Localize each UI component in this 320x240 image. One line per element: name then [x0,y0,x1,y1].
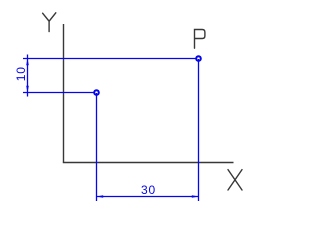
Y axis [63,24,65,163]
dimension line 10 [27,55,29,97]
arrow right [192,195,199,198]
arrow down [26,86,29,93]
label P [195,30,205,49]
label Y [43,13,56,32]
arrow left [96,195,103,198]
arrow up [26,58,29,65]
wire: extension line top (to P) [23,58,197,60]
svg-text:10: 10 [14,66,28,81]
point P marker [196,56,201,61]
point marker (30,10) [94,90,99,95]
wire: vertical extension from mid point [96,93,98,201]
X axis [63,162,234,164]
svg-text:30: 30 [141,183,156,197]
dimension line 30 [97,196,199,198]
wire: extension line bottom (to point) [23,92,95,94]
wire: vertical extension from P [198,59,200,201]
label X [228,170,242,190]
